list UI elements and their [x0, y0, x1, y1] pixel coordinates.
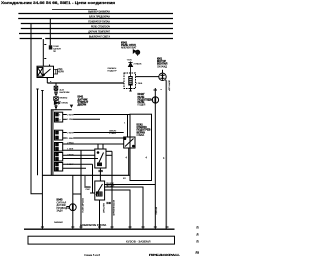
- svg-text:РЕЛЕ ОТКЛ: РЕЛЕ ОТКЛ: [121, 43, 136, 47]
- wire cell1 pin2: [63, 118, 67, 120]
- wire vertical E: [37, 89, 39, 175]
- wire vertical to ground at x112: [111, 151, 113, 229]
- svg-text:КР БЕЛ: КР БЕЛ: [155, 207, 157, 215]
- bus line L3: [21, 23, 173, 25]
- wire vertical D: [49, 19, 51, 46]
- K042 symbol: [133, 50, 140, 56]
- wire vertical A: [31, 24, 42, 194]
- svg-text:Л: Л: [197, 232, 199, 236]
- svg-text:2 БЕЛ: 2 БЕЛ: [67, 132, 74, 134]
- wire cell3 to S1/K20: [63, 143, 124, 145]
- K042G circle: [152, 88, 158, 229]
- svg-text:ГЕНЕРАТОР ПИТАН: ГЕНЕРАТОР ПИТАН: [88, 21, 110, 24]
- svg-text:КЛЮЧ: КЛЮЧ: [62, 102, 69, 104]
- svg-text:СЕР: СЕР: [86, 189, 91, 191]
- svg-text:СЛЕВА: СЛЕВА: [137, 134, 145, 137]
- connector bars: [54, 91, 58, 93]
- svg-text:ОХЛАЖД: ОХЛАЖД: [157, 65, 167, 68]
- svg-text:КОРИЧНЕВЫЙ: КОРИЧНЕВЫЙ: [112, 200, 115, 216]
- K40 box: [95, 181, 105, 230]
- svg-text:П: П: [197, 225, 199, 229]
- buzzer diamond: [70, 105, 74, 108]
- connector D blob: [49, 45, 53, 49]
- K042G drop: [154, 103, 156, 229]
- gray stub wire: [85, 176, 90, 187]
- svg-text:РЕЛЕ СТЕКЛООЧ: РЕЛЕ СТЕКЛООЧ: [91, 27, 111, 29]
- LED symbol: [54, 101, 60, 104]
- fuse A-01: [54, 86, 58, 90]
- bus line L1: [18, 13, 173, 15]
- wire vertical B: [42, 39, 44, 66]
- svg-text:К20: К20: [99, 169, 104, 173]
- switch box S1: [124, 137, 135, 175]
- svg-text:СТЕКЛ: СТЕКЛ: [109, 133, 117, 135]
- svg-text:2 БЕЛ: 2 БЕЛ: [67, 114, 74, 116]
- svg-text:ВКЛЮЧ: ВКЛЮЧ: [60, 98, 68, 100]
- svg-text:К40: К40: [107, 201, 112, 205]
- svg-text:ПОДОГР: ПОДОГР: [108, 70, 118, 72]
- svg-text:2 КОР: 2 КОР: [67, 154, 74, 156]
- connector cell 4: [55, 153, 99, 162]
- svg-text:ЧЕРН СЕР: ЧЕРН СЕР: [167, 80, 169, 92]
- svg-text:П: П: [197, 239, 199, 243]
- bus line L2: [18, 18, 173, 20]
- pin marks: [54, 106, 57, 107]
- wire K20 out right: [106, 150, 112, 152]
- bus line L4: [21, 28, 173, 30]
- svg-text:ВЫКЛЮЧАТ СВЕТА: ВЫКЛЮЧАТ СВЕТА: [89, 36, 111, 39]
- svg-text:1 СЕР: 1 СЕР: [67, 164, 74, 166]
- dashed enclosure: [124, 73, 136, 89]
- ground plate box: [28, 236, 175, 244]
- valve arrow: [54, 93, 58, 96]
- svg-text:ВЫПРЯМ: ВЫПРЯМ: [60, 92, 70, 94]
- bus line L5: [19, 33, 173, 35]
- wire tick on B: [44, 58, 46, 60]
- ground tie: [73, 193, 81, 195]
- ground feet: [41, 226, 169, 228]
- svg-text:ПР: ПР: [53, 51, 57, 53]
- svg-text:1 СИН: 1 СИН: [67, 119, 74, 121]
- connector cell 1: [55, 112, 131, 137]
- svg-text:ЖЕЛТЫЙ: ЖЕЛТЫЙ: [102, 203, 105, 213]
- svg-text:1 ЖЕЛ: 1 ЖЕЛ: [67, 138, 74, 140]
- svg-text:ТУ25: ТУ25: [127, 59, 133, 61]
- wire vertical to ground at x81: [80, 150, 82, 229]
- diode: [128, 62, 132, 77]
- wire drop to K40: [92, 164, 94, 193]
- resistor: [129, 77, 132, 92]
- wire vertical F: [41, 91, 43, 230]
- wire component column: [55, 83, 57, 86]
- wire relay drop: [46, 78, 48, 84]
- svg-text:ЛБ СИН: ЛБ СИН: [106, 186, 115, 188]
- connector cell 3: [55, 143, 124, 230]
- svg-text:ДВЕРИ: ДВЕРИ: [78, 104, 87, 107]
- svg-text:АККУМУЛ БАТ: АККУМУЛ БАТ: [121, 47, 137, 50]
- connector cell 5: [55, 163, 95, 194]
- ground bus: [24, 228, 175, 230]
- svg-text:ЗАЗЕМЛЕНИЕ КУЗОВА: ЗАЗЕМЛЕНИЕ КУЗОВА: [80, 224, 107, 227]
- svg-text:ПРОВОДКИ: ПРОВОДКИ: [57, 207, 70, 210]
- svg-text:ВЕНТИЛ: ВЕНТИЛ: [157, 63, 168, 66]
- motor drop wire: [165, 79, 166, 229]
- svg-text:2 НАОБ: 2 НАОБ: [134, 62, 143, 65]
- bus line L6: [20, 38, 42, 40]
- svg-text:ДАТЧИК ТЕМПЕРАТ: ДАТЧИК ТЕМПЕРАТ: [88, 31, 110, 34]
- svg-text:ВЫКЛЮЧ ЗАЖИГАН: ВЫКЛЮЧ ЗАЖИГАН: [88, 11, 110, 14]
- big box (unit): [51, 110, 71, 176]
- K40 right wires: [104, 185, 155, 230]
- wire cell1 pin1: [63, 114, 67, 116]
- relay K1: [37, 65, 58, 80]
- svg-text:КУЗОВ - ЗАЗЕМЛ: КУЗОВ - ЗАЗЕМЛ: [126, 239, 150, 243]
- wire long bottom horizontal: [42, 174, 130, 176]
- wire K20 to K40: [99, 168, 101, 181]
- wire drop to switch S1: [127, 115, 129, 138]
- title underline: [52, 9, 97, 11]
- tall box KC42: [130, 114, 152, 180]
- svg-text:РЕЛЕ: РЕЛЕ: [138, 101, 145, 104]
- motor M1: [159, 70, 166, 81]
- svg-text:2 РОЗ: 2 РОЗ: [67, 142, 74, 144]
- svg-text:ЛЗ: ЛЗ: [196, 251, 200, 255]
- wire to motor: [136, 76, 159, 78]
- K043 circle: [66, 175, 76, 229]
- svg-text:ЧЕРН: ЧЕРН: [58, 70, 65, 73]
- svg-text:ЗАЗЕМЛ: ЗАЗЕМЛ: [54, 221, 63, 224]
- switch X-box: [54, 97, 59, 101]
- svg-text:СЕРЫЙ ЧЕРН: СЕРЫЙ ЧЕРН: [81, 198, 84, 213]
- svg-text:2 ЛЕВ: 2 ЛЕВ: [136, 83, 143, 85]
- bus labels: [88, 11, 110, 39]
- svg-text:ЗАДН: ЗАДН: [57, 210, 64, 213]
- wire long horizontal to right: [47, 82, 124, 84]
- svg-text:1 ЗЕЛ: 1 ЗЕЛ: [67, 149, 74, 151]
- svg-text:БЛОК ПРЕДОХРАН: БЛОК ПРЕДОХРАН: [89, 16, 110, 19]
- svg-text:Холодильник 34.66 54 66, 58Е1: Холодильник 34.66 54 66, 58Е1 - Цепи сое…: [1, 1, 115, 5]
- pin 1 cell 1: [56, 113, 59, 116]
- svg-text:ПОДКЛ: ПОДКЛ: [138, 105, 146, 107]
- K20 box: [95, 144, 112, 181]
- connector cell 2: [55, 130, 124, 140]
